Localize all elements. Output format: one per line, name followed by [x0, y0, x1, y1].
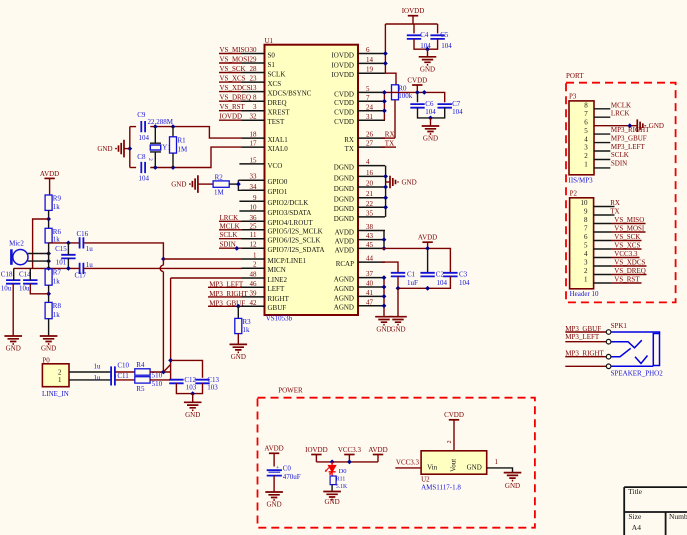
svg-text:AGND: AGND — [334, 294, 354, 302]
U1 pin 33 GPIO0 stub — [242, 179, 265, 181]
junction R1 bottom — [171, 165, 176, 170]
svg-text:TX: TX — [610, 207, 619, 215]
U1 pin 38 AVDD stub — [358, 230, 385, 232]
svg-text:SDIN: SDIN — [220, 241, 236, 249]
svg-text:DGND: DGND — [334, 164, 354, 172]
svg-text:104: 104 — [441, 42, 452, 50]
svg-text:AVDD: AVDD — [335, 228, 354, 236]
svg-text:CVDD: CVDD — [407, 76, 427, 84]
svg-text:43: 43 — [366, 232, 374, 240]
svg-text:GND: GND — [505, 482, 520, 490]
svg-text:37: 37 — [366, 270, 374, 278]
svg-text:26: 26 — [366, 131, 374, 139]
wire MP3_RIGHT to jack — [565, 356, 606, 358]
svg-text:C14: C14 — [19, 271, 31, 279]
svg-text:R4: R4 — [136, 361, 145, 369]
svg-text:2: 2 — [253, 261, 257, 269]
svg-text:C1: C1 — [407, 271, 416, 279]
svg-text:45: 45 — [366, 241, 374, 249]
svg-text:VS_MISO: VS_MISO — [220, 46, 250, 54]
ground U2 — [504, 473, 522, 481]
svg-text:TX: TX — [345, 145, 354, 153]
svg-text:U2: U2 — [421, 475, 430, 483]
svg-text:D0: D0 — [339, 468, 347, 475]
svg-text:1u: 1u — [86, 245, 94, 253]
svg-text:6: 6 — [584, 118, 588, 126]
wire net MP3_LEFT to pin 46 — [208, 286, 242, 288]
wire R2 to GPIO pins — [229, 183, 238, 185]
wire C2 top — [427, 248, 429, 272]
U1 pin 17 XIAL0 stub — [242, 146, 265, 148]
wire bottom rail XIAL0 right — [150, 147, 241, 167]
svg-text:MP3_GBUF: MP3_GBUF — [565, 325, 601, 333]
svg-text:MP3_GBUF: MP3_GBUF — [611, 135, 647, 143]
wire P2 pin 6 stub — [594, 240, 611, 242]
svg-text:10: 10 — [250, 204, 258, 212]
junction DGND 16 — [383, 174, 388, 179]
wire P2 pin 4 net — [611, 257, 640, 259]
svg-text:A4: A4 — [632, 523, 641, 532]
svg-text:2: 2 — [584, 267, 588, 275]
U1 pin 34 GPIO1 stub — [242, 189, 265, 191]
svg-text:8: 8 — [584, 216, 588, 224]
svg-text:101: 101 — [56, 258, 67, 266]
junction DGND 20 — [383, 185, 388, 190]
wire net SCLK to pin 11 — [219, 238, 242, 240]
svg-text:1k: 1k — [53, 278, 61, 286]
svg-text:RX: RX — [344, 136, 354, 144]
svg-text:U1: U1 — [265, 37, 274, 45]
svg-text:DGND: DGND — [334, 185, 354, 193]
svg-text:38: 38 — [366, 223, 374, 231]
svg-text:R8: R8 — [53, 302, 62, 310]
capacitor C8 — [141, 162, 145, 173]
ground C4 C5 — [419, 57, 437, 65]
svg-text:C5: C5 — [440, 31, 449, 39]
svg-text:29: 29 — [250, 56, 258, 64]
wire diagonal jog to LINE2 line — [163, 365, 170, 373]
svg-text:POWER: POWER — [278, 387, 303, 395]
wire GPIO0 jog — [238, 180, 241, 190]
svg-text:GND: GND — [267, 501, 282, 509]
svg-text:16: 16 — [366, 169, 374, 177]
svg-text:RIGHT: RIGHT — [268, 295, 290, 303]
ground C18 — [4, 336, 22, 344]
wire P3 pin 6 to gnd — [594, 125, 637, 127]
svg-text:1k: 1k — [53, 203, 61, 211]
U1 pin 28 SCLK stub — [242, 72, 265, 74]
svg-text:14: 14 — [366, 56, 374, 64]
svg-text:7: 7 — [584, 110, 588, 118]
U1 pin 10 GPIO3/SDATA stub — [239, 210, 264, 212]
U1 pin 32 TEST stub — [242, 119, 265, 121]
junction AVDD 45 — [382, 246, 387, 251]
svg-text:103: 103 — [186, 383, 197, 391]
capacitor C5 — [430, 35, 444, 39]
svg-text:IOVDD: IOVDD — [331, 51, 354, 59]
svg-text:P0: P0 — [42, 356, 50, 364]
U1 pin 35 DGND stub — [358, 216, 385, 218]
svg-text:C15: C15 — [55, 245, 67, 253]
junction crystal top — [153, 124, 158, 129]
U1 pin 27 TX stub — [358, 146, 385, 148]
svg-text:AVDD: AVDD — [335, 246, 354, 254]
wire row B MICN — [14, 267, 80, 269]
junction SDIN — [234, 246, 239, 251]
junction AGND 40 — [382, 285, 387, 290]
svg-text:1: 1 — [495, 458, 499, 466]
svg-text:24: 24 — [366, 103, 374, 111]
wire P2 pin 10 stub — [594, 206, 611, 208]
svg-text:VCC3.3: VCC3.3 — [614, 250, 638, 258]
svg-text:GND: GND — [231, 353, 246, 361]
capacitor C3 — [443, 273, 457, 277]
wire C4 top — [413, 24, 415, 33]
capacitor C9 — [141, 121, 145, 132]
wire net VS_XCS to pin 23 — [219, 81, 242, 83]
wire AGND rail — [383, 278, 385, 317]
svg-text:S0: S0 — [268, 51, 276, 59]
wire C6 C7 bottom join — [418, 108, 445, 118]
svg-text:VS_MOSI: VS_MOSI — [614, 224, 645, 232]
svg-text:104: 104 — [139, 175, 150, 183]
U1 pin 4 DGND stub — [358, 165, 385, 167]
microphone Mic2 — [10, 249, 13, 264]
U1 pin 6 IOVDD stub — [358, 53, 385, 55]
svg-text:GPIO5/I2S_MCLK: GPIO5/I2S_MCLK — [268, 228, 323, 236]
svg-text:28: 28 — [250, 65, 258, 73]
svg-text:VCC3.3: VCC3.3 — [338, 446, 362, 454]
svg-text:Mic2: Mic2 — [9, 240, 24, 248]
svg-text:P2: P2 — [570, 189, 578, 197]
resistor R11 — [330, 476, 336, 485]
svg-text:GPIO0: GPIO0 — [268, 178, 288, 186]
svg-text:8: 8 — [584, 102, 588, 110]
svg-text:AVDD: AVDD — [40, 170, 59, 178]
svg-text:104: 104 — [459, 279, 470, 287]
wire P3 pin 4 — [594, 142, 610, 144]
svg-text:GND: GND — [376, 325, 391, 333]
svg-text:MICN: MICN — [268, 266, 286, 274]
svg-text:23: 23 — [250, 75, 258, 83]
wire mic top — [28, 253, 49, 255]
svg-text:4: 4 — [366, 158, 370, 166]
svg-text:DGND: DGND — [334, 205, 354, 213]
wire MICP to pin1 — [163, 258, 241, 260]
wire row A MICP right — [84, 243, 164, 259]
wire P0 pin2 — [69, 371, 111, 373]
wire R1 top — [172, 127, 174, 137]
wire net MP3_GBUF to pin 42 — [208, 305, 242, 307]
capacitor C7 — [438, 104, 452, 108]
resistor R0 — [392, 85, 399, 100]
wire C11 to R5 — [115, 379, 135, 381]
wire GPIO0 stub — [238, 179, 241, 181]
junction VCC33 tap — [347, 460, 352, 465]
junction C15 top — [66, 241, 71, 246]
svg-text:CVDD: CVDD — [334, 90, 354, 98]
svg-text:R11: R11 — [336, 477, 346, 483]
wire IOVDD rail vertical — [385, 24, 396, 85]
svg-text:P3: P3 — [569, 92, 577, 100]
wire R1 bottom — [172, 153, 174, 167]
wire bottom rail XIAL0 — [130, 167, 136, 169]
wire net SDIN to pin 12 — [219, 247, 242, 249]
wire P2 pin 5 net — [611, 248, 642, 250]
svg-text:10u: 10u — [19, 284, 30, 292]
wire RCAP to C1 — [382, 262, 399, 273]
svg-text:C17: C17 — [75, 271, 87, 279]
capacitor C14 — [23, 280, 37, 284]
svg-text:VS_DREQ: VS_DREQ — [614, 267, 646, 275]
svg-text:SPEAKER_PHO2: SPEAKER_PHO2 — [611, 369, 664, 377]
svg-text:GND: GND — [185, 411, 200, 419]
svg-text:8: 8 — [253, 94, 257, 102]
wire IOVDD rail top — [385, 23, 437, 25]
junction gnd C12C13 — [190, 391, 195, 396]
junction CVDD pin5 — [382, 90, 387, 95]
connector P0 LINE_IN body — [42, 364, 69, 387]
junction P3 gnd — [627, 123, 632, 128]
U1 pin 3 XREST stub — [242, 110, 265, 112]
svg-text:LINE_IN: LINE_IN — [42, 390, 69, 398]
wire gnd drop C6C7 — [430, 118, 432, 126]
wire C15 top stub — [67, 243, 69, 255]
svg-text:41: 41 — [366, 289, 374, 297]
wire C1 C2 C3 bottom join — [398, 276, 450, 288]
junction R4 row — [161, 370, 166, 375]
svg-text:MP3_LEFT: MP3_LEFT — [209, 281, 244, 289]
U1 pin 15 VCO stub — [239, 163, 264, 165]
capacitor C11 — [111, 374, 115, 385]
svg-text:1uF: 1uF — [407, 279, 418, 287]
resistor R7 — [45, 269, 52, 285]
junction gnd C6C7 — [428, 116, 433, 121]
svg-text:27: 27 — [366, 140, 374, 148]
wire C5 top — [437, 24, 439, 33]
svg-text:TX: TX — [385, 139, 394, 147]
svg-text:C10: C10 — [117, 362, 129, 370]
wire LINE2 to pin48 — [171, 277, 242, 279]
svg-text:GND: GND — [171, 181, 186, 189]
wire net VS_DREQ to pin 8 — [219, 100, 242, 102]
svg-text:C8: C8 — [137, 153, 146, 161]
svg-text:SCLK: SCLK — [268, 70, 286, 78]
svg-text:104: 104 — [425, 108, 436, 116]
svg-text:SCLK: SCLK — [611, 151, 629, 159]
svg-text:4: 4 — [584, 250, 588, 258]
junction C1 bottom — [396, 286, 401, 291]
svg-text:VS_XDCS: VS_XDCS — [220, 84, 251, 92]
svg-text:1u: 1u — [94, 362, 102, 370]
wire LINE2 vertical — [170, 278, 172, 380]
svg-text:VS_XCS: VS_XCS — [614, 241, 640, 249]
U1 pin 16 DGND stub — [358, 175, 385, 177]
wire C10 to R4 — [115, 371, 135, 373]
ground R3 — [230, 344, 248, 352]
wire P2 pin 7 stub — [594, 231, 611, 233]
svg-text:CVDD: CVDD — [444, 411, 464, 419]
svg-text:VCC3.3: VCC3.3 — [396, 459, 420, 467]
svg-text:VS_DREQ: VS_DREQ — [220, 94, 252, 102]
wire C12 C13 bottom join — [176, 383, 202, 393]
wire hop row A vertical over MICN — [160, 259, 163, 372]
svg-text:20: 20 — [366, 180, 374, 188]
svg-text:C9: C9 — [137, 111, 146, 119]
U1 pin 8 DREQ stub — [242, 100, 265, 102]
svg-text:47: 47 — [366, 298, 374, 306]
wire jack sleeve — [565, 365, 606, 367]
wire R0 bottom to RX — [394, 100, 396, 138]
svg-text:C6: C6 — [425, 100, 434, 108]
U1 pin 30 S0 stub — [242, 53, 265, 55]
jack SPK1 contacts and body — [606, 330, 611, 335]
U1 pin 39 RIGHT stub — [242, 296, 265, 298]
U1 pin 26 RX stub — [358, 137, 385, 139]
capacitor C18 plates — [6, 280, 20, 284]
wire P3 pin 7 — [594, 116, 610, 118]
svg-text:IOVDD: IOVDD — [220, 113, 243, 121]
svg-text:3: 3 — [584, 144, 588, 152]
wire P2 pin 5 stub — [594, 248, 611, 250]
svg-text:VS_MISO: VS_MISO — [614, 216, 644, 224]
svg-text:2: 2 — [147, 158, 153, 161]
svg-text:C3: C3 — [459, 271, 468, 279]
U1 pin 22 DGND stub — [358, 206, 385, 208]
wire P3 pin 3 — [594, 150, 610, 152]
U1 pin 25 GPIO5/I2S_MCLK stub — [242, 229, 265, 231]
U1 pin 18 XIAL1 stub — [242, 137, 265, 139]
svg-text:XREST: XREST — [268, 109, 291, 117]
wire P2 pin 8 net — [611, 223, 646, 225]
wire P3 pin 8 — [594, 108, 610, 110]
wire row A MICP — [49, 242, 80, 244]
svg-text:17: 17 — [250, 140, 258, 148]
svg-text:104: 104 — [452, 108, 463, 116]
power AVDD left — [44, 177, 54, 179]
junction R1 top — [171, 124, 176, 129]
ground AGND — [375, 317, 393, 325]
wire crystal left vertical — [129, 127, 131, 168]
svg-text:GND: GND — [423, 135, 438, 143]
svg-text:GPIO3/SDATA: GPIO3/SDATA — [268, 209, 312, 217]
resistor R3 — [235, 318, 242, 333]
junction gnd tap — [127, 146, 132, 151]
power CVDD U2 — [449, 419, 459, 421]
connector P2 body — [570, 198, 594, 289]
power IOVDD top — [408, 15, 418, 17]
svg-text:GND: GND — [390, 325, 405, 333]
svg-text:MP3_LEFT: MP3_LEFT — [611, 143, 646, 151]
wire P2 pin 3 net — [611, 265, 647, 267]
svg-text:DREQ: DREQ — [268, 99, 287, 107]
svg-text:1: 1 — [584, 161, 588, 169]
wire net MP3_RIGHT to pin 39 — [208, 296, 242, 298]
svg-text:S1: S1 — [268, 61, 276, 69]
capacitor C6 — [410, 104, 424, 108]
svg-text:R2: R2 — [215, 173, 224, 181]
junction AGND 41 — [382, 294, 387, 299]
junction bias J1 — [46, 217, 51, 222]
svg-text:19: 19 — [366, 66, 374, 74]
wire C15 bottom stub — [67, 258, 69, 268]
svg-text:GPIO6/I2S_SCLK: GPIO6/I2S_SCLK — [268, 237, 321, 245]
svg-text:LRCK: LRCK — [220, 214, 239, 222]
svg-text:2: 2 — [584, 152, 588, 160]
ground P3 — [637, 119, 645, 132]
svg-text:IOVDD: IOVDD — [305, 446, 328, 454]
U1 pin 47 AGND stub — [358, 305, 385, 307]
junction gnd C4C5 — [425, 47, 430, 52]
wire R5 out — [150, 379, 171, 381]
wire P2 pin 10 net — [611, 206, 615, 208]
svg-text:GND: GND — [649, 122, 664, 130]
svg-text:1: 1 — [584, 276, 588, 284]
svg-text:AGND: AGND — [334, 285, 354, 293]
svg-text:31: 31 — [366, 113, 374, 121]
U1 pin 36 GPIO4/LROUT stub — [242, 220, 265, 222]
svg-text:AVDD: AVDD — [418, 234, 437, 242]
power AVDD in POWER — [269, 452, 279, 454]
svg-text:MP3_RIGHT: MP3_RIGHT — [209, 290, 248, 298]
wire P2 pin 2 stub — [594, 274, 611, 276]
svg-text:18: 18 — [250, 131, 258, 139]
svg-text:SCLK: SCLK — [220, 231, 238, 239]
wire CVDD rail — [382, 92, 445, 102]
wire P3 pin 5 — [594, 133, 610, 135]
svg-text:1u: 1u — [94, 374, 102, 382]
junction mic bottom — [46, 259, 51, 264]
svg-text:35: 35 — [366, 209, 374, 217]
svg-text:C11: C11 — [117, 372, 129, 380]
svg-text:CVDD: CVDD — [334, 99, 354, 107]
svg-text:12: 12 — [250, 241, 258, 249]
title block frame — [624, 487, 687, 535]
svg-text:TEST: TEST — [268, 118, 285, 126]
svg-text:1M: 1M — [214, 189, 225, 197]
wire P2 pin 3 stub — [594, 265, 611, 267]
junction CVDD pin24 — [382, 108, 387, 113]
svg-text:MP3_RIGHT: MP3_RIGHT — [611, 126, 650, 134]
ground DGND — [390, 176, 398, 188]
svg-text:Title: Title — [628, 487, 643, 496]
wire top rail XIAL1 — [130, 126, 136, 128]
junction CVDD top — [415, 90, 420, 95]
IC U1 VS1053b body — [265, 45, 359, 315]
junction IOVDD pin6 — [383, 51, 388, 56]
dashed box PORT — [566, 83, 676, 303]
svg-text:13: 13 — [250, 84, 258, 92]
wire net IOVDD to pin 32 — [219, 119, 242, 121]
svg-text:470uF: 470uF — [283, 473, 301, 481]
svg-text:C16: C16 — [77, 230, 89, 238]
svg-text:44: 44 — [366, 255, 374, 263]
svg-text:IIS/MP3: IIS/MP3 — [569, 176, 594, 184]
svg-text:GND: GND — [402, 179, 417, 187]
wire net VS_SCK to pin 28 — [219, 72, 242, 74]
svg-text:C18: C18 — [1, 271, 13, 279]
wire P0 pin1 — [69, 379, 111, 381]
svg-text:48: 48 — [250, 271, 258, 279]
U1 pin 40 AGND stub — [358, 286, 385, 288]
wire net LRCK to pin 36 — [219, 220, 242, 222]
ground C0 — [265, 492, 283, 500]
U1 pin 45 AVDD stub — [358, 247, 385, 249]
ground R8 — [40, 336, 58, 344]
power AVDD2 in POWER — [373, 454, 383, 456]
wire net VS_RST to pin 3 — [219, 110, 242, 112]
wire P3 pin 2 — [594, 159, 610, 161]
